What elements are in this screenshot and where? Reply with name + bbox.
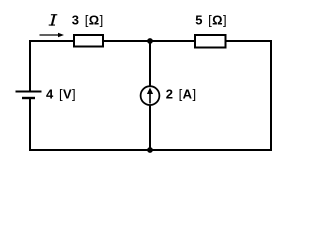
- wire right (from R2 down to bottom rail): [270, 40, 272, 151]
- wire middle branch (current source branch): [149, 41, 151, 150]
- current I reference arrow: [40, 34, 60, 36]
- current source I1 circle: [141, 86, 160, 105]
- svg-text:2[A]: 2[A]: [166, 87, 197, 102]
- resistor R2 body 5 ohm: [195, 35, 226, 48]
- svg-text:4[V]: 4[V]: [46, 87, 76, 102]
- junction dot top (node between R1, R2 and current source): [147, 38, 153, 44]
- battery V1 long plate (+): [16, 91, 42, 93]
- wire left upper (from battery + to top-left corner): [29, 40, 31, 91]
- svg-text:5[Ω]: 5[Ω]: [195, 13, 227, 28]
- svg-text:3[Ω]: 3[Ω]: [72, 13, 104, 28]
- wire top (node between V source, R1, middle node, R2): [29, 40, 272, 42]
- junction dot bottom (node on return rail): [147, 147, 153, 153]
- wire bottom (return/ground rail): [29, 149, 272, 151]
- resistor R1 body 3 ohm: [74, 35, 103, 47]
- battery V1 short plate (-): [22, 97, 35, 99]
- wire left lower (from battery - to bottom-left corner): [29, 98, 31, 151]
- current label I: [49, 14, 58, 25]
- current source I1 arrow: [149, 92, 151, 104]
